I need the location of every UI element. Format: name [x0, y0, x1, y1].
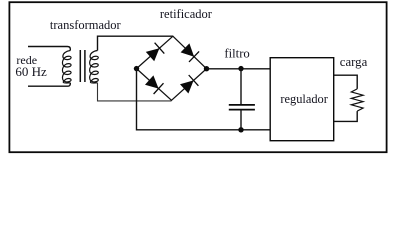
transformer primary winding L1	[62, 51, 71, 84]
wire AC source top lead	[28, 47, 70, 51]
junction node right	[204, 66, 209, 71]
diode D2 (top to right)	[181, 43, 200, 62]
junction node left	[134, 66, 139, 71]
border frame	[9, 2, 386, 152]
wire AC source bottom lead	[28, 83, 70, 86]
wire right node to regulator	[207, 68, 271, 70]
junction node filtro top	[238, 66, 243, 71]
wire secondary top to bridge top node	[98, 36, 173, 50]
svg-text:retificador: retificador	[160, 7, 213, 21]
wire regulator output to load top	[334, 75, 358, 89]
svg-text:transformador: transformador	[50, 18, 122, 32]
resistor R load	[351, 89, 363, 111]
wire secondary bottom to bridge bottom node	[98, 83, 172, 101]
diode D1 (left to top)	[146, 43, 165, 62]
svg-text:regulador: regulador	[280, 92, 328, 106]
wire left node down to bottom rail	[137, 69, 271, 130]
diode D3 (left to bottom)	[145, 75, 164, 94]
diode D4 (bottom to right)	[180, 75, 198, 94]
bridge diamond wires	[137, 36, 207, 100]
capacitor C1	[229, 69, 255, 130]
svg-text:carga: carga	[340, 55, 368, 69]
svg-text:filtro: filtro	[224, 47, 249, 61]
regulator box U1	[270, 58, 334, 141]
transformer core	[79, 50, 81, 82]
junction node filtro bottom	[238, 127, 243, 132]
svg-text:60 Hz: 60 Hz	[15, 64, 47, 79]
transformer secondary winding L2	[90, 51, 99, 84]
wire load bottom back to regulator	[334, 111, 358, 121]
